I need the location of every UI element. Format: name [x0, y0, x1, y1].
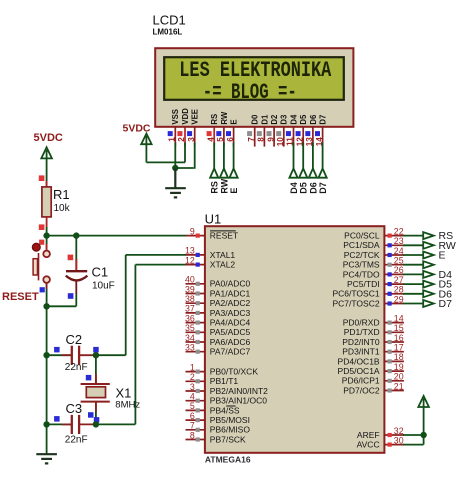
- terminal D5 (pin 27): [423, 281, 434, 288]
- resistor R1 bottom pin state square: [39, 224, 45, 230]
- svg-text:C3: C3: [66, 401, 83, 416]
- pushbutton bottom contact: [43, 276, 50, 283]
- U1 pin 26 state square: [388, 272, 392, 276]
- svg-text:PC0/SCL: PC0/SCL: [344, 231, 380, 241]
- resistor R1: [46, 181, 48, 187]
- terminal D4 (LCD data input): [289, 169, 297, 178]
- svg-text:LM016L: LM016L: [153, 28, 183, 37]
- node junction AREF/AVCC/power: [420, 432, 426, 438]
- svg-text:2: 2: [177, 137, 186, 142]
- svg-text:VDD: VDD: [181, 108, 190, 125]
- terminal RS (LCD control input): [210, 169, 218, 178]
- U1 pin 37 state square: [196, 311, 200, 315]
- svg-text:XTAL1: XTAL1: [210, 250, 236, 260]
- ground (bottom rail): [36, 453, 57, 455]
- svg-text:23: 23: [394, 236, 404, 246]
- U1 pin 29 PC7/TOSC2 stub: [384, 303, 404, 305]
- capacitor C1 (electrolytic): [66, 270, 87, 272]
- LCD pin 2 stub: [184, 127, 186, 146]
- svg-text:D6: D6: [308, 182, 318, 194]
- U1 pin 3 PB2/AIN0/INT2 stub: [186, 390, 205, 392]
- svg-text:PA0/ADC0: PA0/ADC0: [210, 279, 251, 289]
- terminal D4 (pin 26): [423, 271, 434, 278]
- U1 pin 12 XTAL2 stub: [186, 264, 205, 266]
- LCD pin 6 stub: [233, 127, 235, 146]
- svg-text:PC6/TOSC1: PC6/TOSC1: [333, 289, 380, 299]
- wire node to capacitor C1: [75, 236, 77, 271]
- node junction VSS/VEE ground: [172, 165, 178, 171]
- svg-text:VEE: VEE: [191, 109, 200, 125]
- svg-text:10k: 10k: [54, 203, 71, 214]
- svg-text:5VDC: 5VDC: [34, 132, 63, 144]
- svg-text:PD4/OC1B: PD4/OC1B: [338, 356, 380, 366]
- wire U1 pin 26 to terminal: [403, 273, 423, 275]
- LCD pin 5 stub: [223, 127, 225, 146]
- svg-text:30: 30: [394, 435, 404, 445]
- U1 pin 32 state square: [388, 433, 392, 437]
- U1 pin 38 state square: [196, 301, 200, 305]
- wire reset node to U1 pin 9: [47, 235, 186, 237]
- node junction rail/C3: [43, 421, 49, 427]
- U1 pin 30 state square: [388, 443, 392, 447]
- wire C3 to crystal node: [79, 423, 96, 425]
- LCD pin 14 state square: [315, 131, 320, 136]
- svg-text:RW: RW: [219, 178, 229, 193]
- svg-text:PA6/ADC6: PA6/ADC6: [210, 337, 251, 347]
- U1 pin 16 state square: [388, 340, 392, 344]
- wire XTAL1 to U1 pin 13: [126, 254, 186, 256]
- wire LCD D4 to terminal: [293, 143, 295, 170]
- svg-text:RS: RS: [210, 181, 220, 194]
- svg-text:PD5/OC1A: PD5/OC1A: [338, 366, 380, 376]
- wire rail to C3: [47, 423, 72, 425]
- svg-text:PA1/ADC1: PA1/ADC1: [210, 288, 251, 298]
- svg-text:RESET: RESET: [210, 231, 238, 241]
- svg-text:4: 4: [190, 392, 195, 402]
- U1 pin 9 RESET overline: [210, 230, 236, 232]
- svg-text:5: 5: [190, 401, 195, 411]
- svg-text:20: 20: [394, 372, 404, 382]
- svg-text:D1: D1: [260, 114, 269, 125]
- svg-text:PB6/MISO: PB6/MISO: [210, 425, 251, 435]
- svg-text:XTAL2: XTAL2: [210, 260, 236, 270]
- svg-text:-= BLOG =-: -= BLOG =-: [203, 80, 297, 105]
- svg-text:PC5/TDI: PC5/TDI: [347, 279, 380, 289]
- terminal D7 (LCD data input): [319, 169, 327, 178]
- U1 pin 18 state square: [388, 359, 392, 363]
- LCD pin 10 state square: [276, 131, 281, 136]
- wire XTAL2 to U1 pin 12: [135, 264, 186, 266]
- LCD pin 8 state square: [257, 131, 262, 136]
- svg-text:9: 9: [190, 226, 195, 236]
- terminal D6 (pin 28): [423, 290, 434, 297]
- U1 pin 34 PA6/ADC6 stub: [186, 341, 205, 343]
- svg-text:E: E: [229, 188, 239, 194]
- svg-text:PD0/RXD: PD0/RXD: [343, 318, 380, 328]
- LCD screen: [164, 57, 344, 100]
- capacitor C2 right pin state square: [93, 347, 99, 353]
- svg-text:PD3/INT1: PD3/INT1: [342, 347, 380, 357]
- pushbutton top contact: [43, 251, 50, 258]
- wire LCD E to terminal: [233, 143, 235, 170]
- U1 pin 5 SS overline: [226, 405, 235, 407]
- svg-text:6: 6: [190, 411, 195, 421]
- U1 pin 40 PA0/ADC0 stub: [186, 283, 205, 285]
- terminal D5 (LCD data input): [299, 169, 307, 178]
- LCD pin 14 stub: [322, 127, 324, 146]
- svg-text:3: 3: [190, 382, 195, 392]
- U1 pin 35 PA5/ADC5 stub: [186, 331, 205, 333]
- svg-text:D3: D3: [280, 114, 289, 125]
- svg-text:VSS: VSS: [171, 109, 180, 125]
- U1 pin 25 state square: [388, 263, 392, 267]
- terminal unnamed (pin 25): [423, 261, 434, 268]
- LCD pin 1 stub: [174, 127, 176, 146]
- wire LCD VDD pin 2: [184, 143, 186, 163]
- U1 pin 12 state square: [196, 263, 200, 267]
- svg-text:PC4/TDO: PC4/TDO: [343, 269, 380, 279]
- node junction button/C1/rail: [43, 303, 49, 309]
- LCD pin 10 stub: [283, 127, 285, 146]
- node junction C3/X1/XTAL2: [93, 421, 99, 427]
- U1 pin 9 state square: [196, 234, 200, 238]
- LCD pin 11 stub: [293, 127, 295, 146]
- svg-text:AVCC: AVCC: [357, 440, 380, 450]
- U1 pin 27 PC5/TDI stub: [384, 283, 404, 285]
- capacitor C2 left pin state square: [54, 347, 60, 353]
- svg-text:27: 27: [394, 275, 404, 285]
- wire AVCC to power node: [403, 444, 424, 446]
- LCD pin 1 state square: [168, 131, 173, 136]
- wire crystal top pin: [95, 355, 97, 384]
- svg-text:RS: RS: [210, 114, 219, 125]
- svg-text:5: 5: [216, 137, 225, 142]
- wire LCD RW to terminal: [223, 143, 225, 170]
- U1 pin 20 state square: [388, 379, 392, 383]
- svg-text:10uF: 10uF: [92, 281, 115, 292]
- LCD pin 7 state square: [247, 131, 252, 136]
- wire C2 to crystal node: [79, 354, 96, 356]
- svg-text:8MHz: 8MHz: [115, 399, 140, 410]
- LCD pin 4 stub: [213, 127, 215, 146]
- svg-text:PB4/SS: PB4/SS: [210, 405, 240, 415]
- U1 pin 16 PD2/INT0 stub: [384, 341, 404, 343]
- svg-text:RW: RW: [220, 111, 229, 124]
- U1 pin 6 PB5/MOSI stub: [186, 419, 205, 421]
- wire left rail down: [46, 306, 48, 454]
- U1 pin 19 PD5/OC1A stub: [384, 370, 404, 372]
- wire AREF to power node: [403, 434, 424, 436]
- power 5VDC terminal (LCD supply): [145, 136, 147, 162]
- wire LCD D5 to terminal: [302, 143, 304, 170]
- svg-text:28: 28: [394, 285, 404, 295]
- resistor R1 top pin state square: [39, 175, 45, 181]
- U1 pin 2 PB1/T1 stub: [186, 380, 205, 382]
- svg-text:PB1/T1: PB1/T1: [210, 376, 239, 386]
- U1 pin 1 PB0/T0/XCK stub: [186, 371, 205, 373]
- LCD pin 9 state square: [267, 131, 272, 136]
- LCD pin 9 stub: [273, 127, 275, 146]
- U1 pin 5 state square: [196, 408, 200, 412]
- wire rail to C2: [47, 354, 72, 356]
- U1 pin 14 state square: [388, 321, 392, 325]
- wire U1 pin 24 to terminal: [403, 254, 423, 256]
- ground (LCD): [165, 187, 186, 189]
- U1 pin 24 PC2/TCK stub: [384, 254, 404, 256]
- capacitor C3: [71, 415, 73, 434]
- U1 pin 26 PC4/TDO stub: [384, 273, 404, 275]
- svg-text:D6: D6: [309, 114, 318, 125]
- LCD pin 2 state square: [177, 131, 182, 136]
- node junction reset/R1/button: [43, 232, 49, 238]
- crystal X1 top pin state square: [86, 375, 92, 381]
- terminal RW (pin 23): [423, 242, 434, 249]
- wire LCD VSS pin 1 to ground: [174, 143, 176, 169]
- U1 pin 28 PC6/TOSC1 stub: [384, 293, 404, 295]
- svg-text:PC7/TOSC2: PC7/TOSC2: [333, 298, 380, 308]
- svg-text:PA2/ADC2: PA2/ADC2: [210, 298, 251, 308]
- svg-text:34: 34: [185, 333, 195, 343]
- U1 pin 4 state square: [196, 399, 200, 403]
- LCD pin 12 stub: [302, 127, 304, 146]
- svg-text:PA7/ADC7: PA7/ADC7: [210, 347, 251, 357]
- terminal E (LCD control input): [230, 169, 238, 178]
- svg-text:9: 9: [266, 137, 275, 142]
- U1 pin 37 PA3/ADC3 stub: [186, 312, 205, 314]
- U1 pin 3 state square: [196, 389, 200, 393]
- svg-text:8: 8: [257, 137, 266, 142]
- svg-text:C1: C1: [92, 264, 109, 279]
- svg-text:24: 24: [394, 246, 404, 256]
- svg-text:22nF: 22nF: [65, 362, 88, 373]
- U1 pin 30 AVCC stub: [384, 444, 404, 446]
- U1 pin 5 PB4/SS stub: [186, 409, 205, 411]
- svg-text:4: 4: [206, 137, 215, 142]
- pushbutton (reset) actuator knob: [32, 243, 40, 251]
- terminal D6 (LCD data input): [309, 169, 317, 178]
- svg-text:PC2/TCK: PC2/TCK: [344, 250, 380, 260]
- wire LCD D7 to terminal: [322, 143, 324, 170]
- svg-text:PC3/TMS: PC3/TMS: [343, 260, 380, 270]
- wire button bottom to lower node: [46, 283, 48, 306]
- svg-text:D4: D4: [289, 182, 299, 194]
- U1 pin 34 state square: [196, 340, 200, 344]
- wire U1 pin 25 to terminal: [403, 264, 423, 266]
- LCD pin 11 state square: [286, 131, 291, 136]
- U1 pin 13 state square: [196, 253, 200, 257]
- svg-text:25: 25: [394, 256, 404, 266]
- U1 pin 23 PC1/SDA stub: [384, 244, 404, 246]
- svg-text:D5: D5: [299, 114, 308, 125]
- pushbutton bottom pin state square: [40, 287, 45, 292]
- wire U1 pin 27 to terminal: [403, 283, 423, 285]
- svg-text:PB2/AIN0/INT2: PB2/AIN0/INT2: [210, 386, 268, 396]
- svg-text:15: 15: [394, 323, 404, 333]
- svg-text:PD2/INT0: PD2/INT0: [342, 337, 380, 347]
- LCD pin 5 state square: [216, 131, 221, 136]
- svg-text:PB7/SCK: PB7/SCK: [210, 434, 246, 444]
- svg-text:33: 33: [185, 343, 195, 353]
- U1 pin 21 PD7/OC2 stub: [384, 390, 404, 392]
- capacitor C3 left pin state square: [54, 416, 60, 422]
- wire C1 bottom to lower node: [75, 294, 77, 306]
- svg-text:D7: D7: [318, 182, 328, 194]
- svg-text:PB3/AIN1/OC0: PB3/AIN1/OC0: [210, 396, 267, 406]
- U1 pin 33 PA7/ADC7 stub: [186, 351, 205, 353]
- pushbutton contact blade: [38, 253, 40, 280]
- node junction C2/X1/XTAL1: [93, 352, 99, 358]
- svg-text:PA4/ADC4: PA4/ADC4: [210, 318, 251, 328]
- svg-text:8: 8: [190, 430, 195, 440]
- wire LCD VEE pin 3 to ground: [194, 143, 196, 169]
- wire U1 pin 23 to terminal: [403, 244, 423, 246]
- LCD pin 6 state square: [226, 131, 231, 136]
- LCD pin 13 stub: [312, 127, 314, 146]
- svg-text:7: 7: [190, 421, 195, 431]
- terminal RW (LCD control input): [220, 169, 228, 178]
- U1 pin 9 RESET stub: [186, 235, 205, 237]
- svg-text:22nF: 22nF: [65, 434, 88, 445]
- svg-text:2: 2: [190, 372, 195, 382]
- wire U1 pin 22 to terminal: [403, 235, 423, 237]
- svg-text:C2: C2: [66, 332, 83, 347]
- svg-text:PB5/MOSI: PB5/MOSI: [210, 415, 250, 425]
- U1 pin 23 state square: [388, 243, 392, 247]
- U1 pin 39 PA1/ADC1 stub: [186, 293, 205, 295]
- svg-text:1: 1: [190, 362, 195, 372]
- svg-text:32: 32: [394, 426, 404, 436]
- svg-text:AREF: AREF: [357, 430, 380, 440]
- svg-text:PB0/T0/XCK: PB0/T0/XCK: [210, 367, 259, 377]
- wire LCD D6 to terminal: [312, 143, 314, 170]
- svg-text:RESET: RESET: [2, 291, 39, 303]
- LCD pin 3 stub: [194, 127, 196, 146]
- svg-text:38: 38: [185, 294, 195, 304]
- resistor R1 bottom pin: [46, 217, 48, 227]
- LCD pin 3 state square: [187, 131, 192, 136]
- svg-text:PC1/SDA: PC1/SDA: [343, 240, 380, 250]
- IC U1 body (ATMEGA16 microcontroller): [205, 226, 385, 453]
- U1 pin 38 PA2/ADC2 stub: [186, 302, 205, 304]
- U1 pin 13 XTAL1 stub: [186, 254, 205, 256]
- U1 pin 36 state square: [196, 321, 200, 325]
- U1 pin 15 PD1/TXD stub: [384, 331, 404, 333]
- svg-text:D5: D5: [299, 182, 309, 194]
- U1 pin 6 state square: [196, 418, 200, 422]
- LCD pin 7 stub: [254, 127, 256, 146]
- svg-text:29: 29: [394, 294, 404, 304]
- crystal X1: [81, 383, 110, 385]
- wire U1 pin 29 to terminal: [403, 303, 423, 305]
- U1 pin 14 PD0/RXD stub: [384, 322, 404, 324]
- svg-text:21: 21: [394, 381, 404, 391]
- U1 pin 27 state square: [388, 282, 392, 286]
- wire junction to ground: [174, 168, 176, 188]
- svg-text:26: 26: [394, 265, 404, 275]
- svg-text:3: 3: [187, 137, 196, 142]
- U1 pin 39 state square: [196, 291, 200, 295]
- power terminal (AVCC supply): [423, 399, 425, 436]
- power 5VDC terminal (left rail): [46, 150, 48, 187]
- terminal RS (pin 22): [423, 232, 434, 239]
- svg-text:R1: R1: [53, 187, 70, 202]
- capacitor C1 bottom pin state square: [68, 293, 74, 299]
- svg-text:D0: D0: [251, 114, 260, 125]
- wire XTAL2 node state square: [94, 417, 100, 423]
- U1 pin 20 PD6/ICP1 stub: [384, 380, 404, 382]
- svg-text:D4: D4: [289, 114, 298, 125]
- U1 pin 4 PB3/AIN1/OC0 stub: [186, 400, 205, 402]
- svg-text:LCD1: LCD1: [153, 13, 186, 28]
- U1 pin 22 state square: [388, 234, 392, 238]
- U1 pin 35 state square: [196, 330, 200, 334]
- U1 pin 36 PA4/ADC4 stub: [186, 322, 205, 324]
- svg-text:17: 17: [394, 343, 404, 353]
- LCD pin 13 state square: [305, 131, 310, 136]
- svg-text:D7: D7: [439, 298, 453, 310]
- svg-text:PA5/ADC5: PA5/ADC5: [210, 327, 251, 337]
- svg-text:14: 14: [394, 313, 404, 323]
- svg-text:U1: U1: [205, 211, 222, 226]
- svg-text:E: E: [439, 250, 446, 262]
- wire crystal bottom pin: [95, 402, 97, 425]
- svg-text:E: E: [230, 119, 239, 124]
- terminal E (pin 24): [423, 252, 434, 259]
- wire R1 to reset node: [46, 227, 48, 236]
- U1 pin 28 state square: [388, 292, 392, 296]
- LCD pin 12 state square: [296, 131, 301, 136]
- svg-text:35: 35: [185, 323, 195, 333]
- U1 pin 33 state square: [196, 350, 200, 354]
- svg-text:PD6/ICP1: PD6/ICP1: [342, 376, 380, 386]
- svg-text:12: 12: [185, 255, 195, 265]
- U1 pin 21 state square: [388, 388, 392, 392]
- svg-text:10: 10: [276, 137, 285, 147]
- U1 pin 8 PB7/SCK stub: [186, 439, 205, 441]
- svg-text:13: 13: [185, 246, 195, 256]
- capacitor C2: [71, 346, 73, 365]
- U1 pin 17 state square: [388, 350, 392, 354]
- LCD pin 8 stub: [263, 127, 265, 146]
- svg-text:22: 22: [394, 226, 404, 236]
- svg-text:19: 19: [394, 362, 404, 372]
- U1 pin 8 state square: [196, 437, 200, 441]
- LCD LCD1 body: [155, 48, 353, 127]
- svg-text:D2: D2: [270, 114, 279, 125]
- capacitor C1 top pin state square: [68, 255, 74, 261]
- U1 pin 32 AREF stub: [384, 434, 404, 436]
- pushbutton top pin state square: [39, 240, 44, 245]
- svg-text:16: 16: [394, 333, 404, 343]
- svg-text:X1: X1: [116, 386, 132, 401]
- svg-text:18: 18: [394, 352, 404, 362]
- pushbutton actuator bar: [33, 259, 37, 275]
- U1 pin 19 state square: [388, 369, 392, 373]
- svg-text:PD7/OC2: PD7/OC2: [343, 385, 380, 395]
- svg-text:7: 7: [247, 137, 256, 142]
- U1 pin 2 state square: [196, 379, 200, 383]
- wire 5VDC to LCD VDD: [146, 161, 185, 163]
- U1 pin 24 state square: [388, 253, 392, 257]
- U1 pin 15 state square: [388, 330, 392, 334]
- svg-text:D7: D7: [319, 115, 328, 125]
- node junction rail/C2: [43, 352, 49, 358]
- U1 pin 29 state square: [388, 301, 392, 305]
- U1 pin 18 PD4/OC1B stub: [384, 360, 404, 362]
- wire LCD RS to terminal: [213, 143, 215, 170]
- svg-text:ATMEGA16: ATMEGA16: [205, 454, 251, 464]
- crystal X1 bottom pin state square: [88, 412, 94, 418]
